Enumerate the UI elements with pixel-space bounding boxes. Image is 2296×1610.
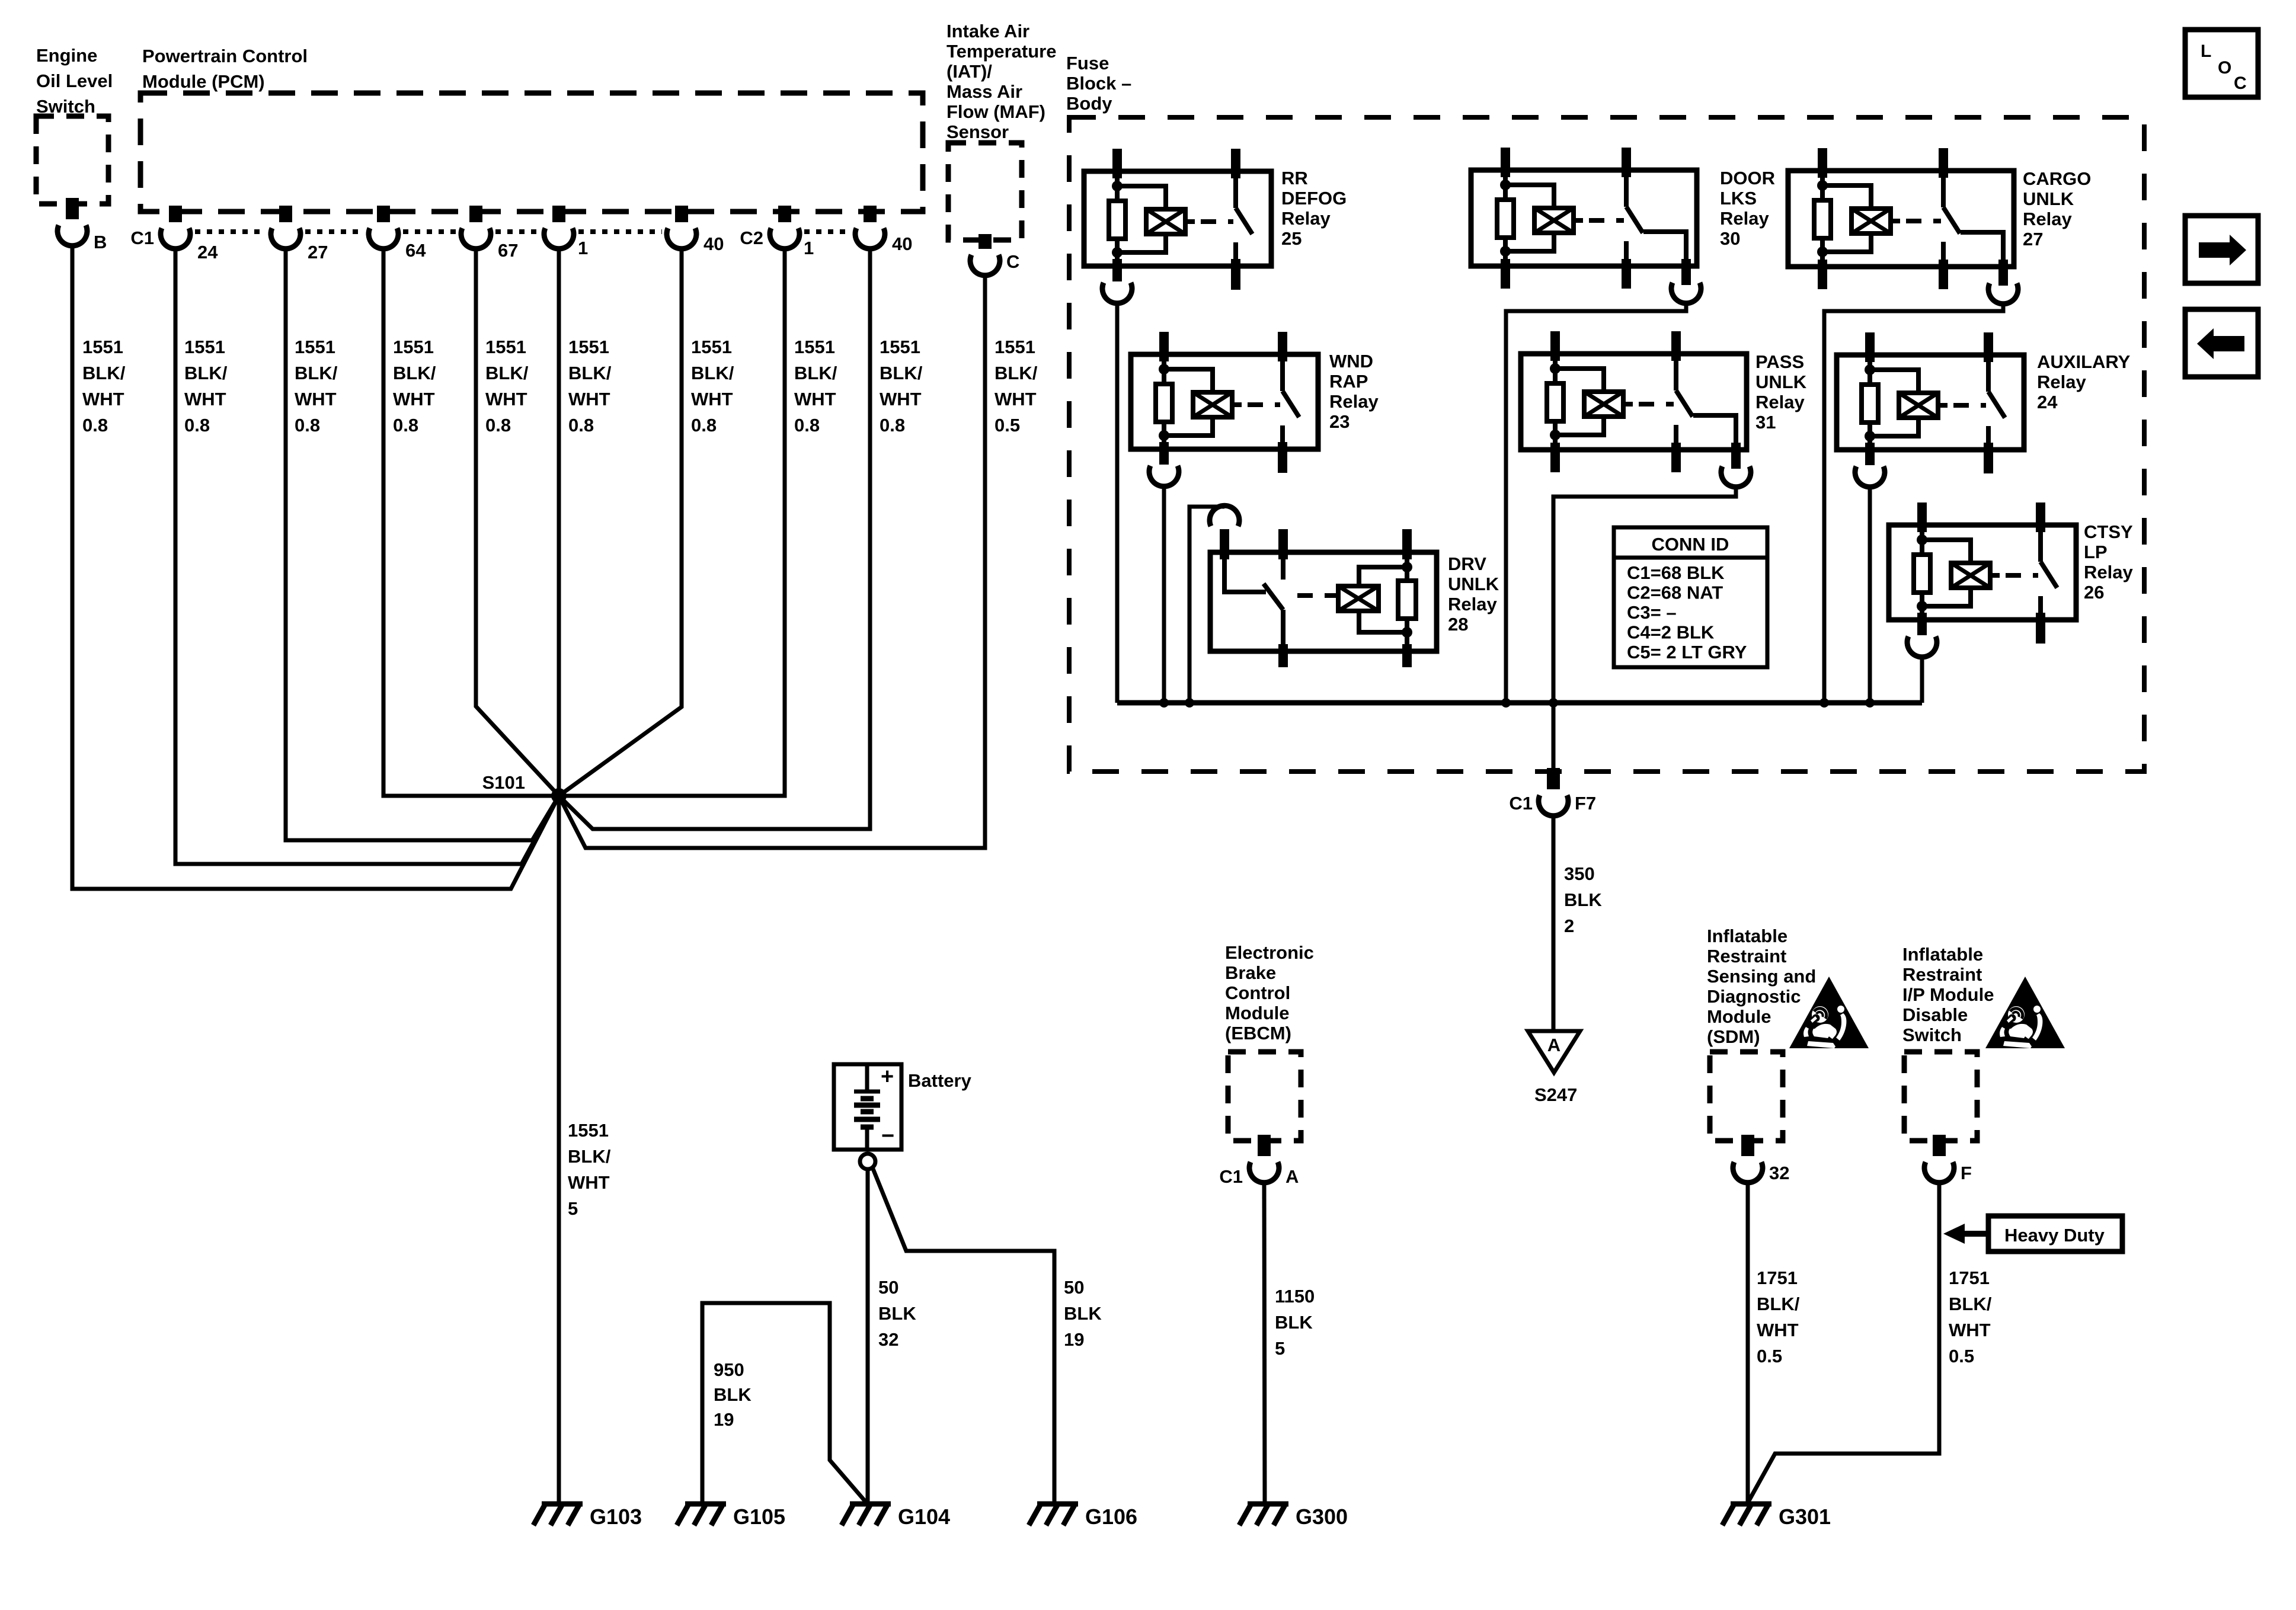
wire ground bus to DRV UNLK relay — [1189, 507, 1224, 703]
svg-text:Battery: Battery — [908, 1070, 972, 1091]
svg-text:BLK/: BLK/ — [568, 1146, 611, 1167]
svg-text:WHT: WHT — [568, 389, 610, 409]
wire 1551 BLK/WHT 0.8 (PCM C1-67 to S101) — [476, 249, 559, 796]
svg-text:Block –: Block – — [1066, 73, 1131, 94]
label Electronic Brake Control Module (EBCM) — [1225, 942, 1314, 1044]
svg-text:G106: G106 — [1085, 1505, 1137, 1529]
warning triangle (SDM airbag) — [1789, 977, 1869, 1048]
svg-text:BLK/: BLK/ — [691, 363, 734, 383]
relay RR DEFOG 25 — [1084, 149, 1271, 290]
wire label 1551 BLK/WHT 0.8 — [485, 337, 529, 436]
svg-text:Oil Level: Oil Level — [36, 71, 113, 91]
svg-text:0.8: 0.8 — [794, 415, 820, 436]
svg-text:C3= –: C3= – — [1627, 602, 1677, 623]
svg-text:LP: LP — [2084, 542, 2108, 562]
junction DOOR LKS — [1501, 698, 1511, 708]
battery — [834, 1064, 901, 1150]
svg-text:WHT: WHT — [485, 389, 527, 409]
svg-text:25: 25 — [1281, 228, 1302, 249]
svg-text:(IAT)/: (IAT)/ — [946, 61, 992, 82]
svg-text:WND: WND — [1329, 351, 1373, 372]
connector PCM pin 27 — [271, 206, 300, 249]
relay CARGO UNLK 27 label — [2023, 168, 2091, 249]
svg-text:0.8: 0.8 — [295, 415, 320, 436]
svg-text:1: 1 — [804, 238, 814, 258]
svg-text:24: 24 — [2037, 392, 2058, 412]
wire RR DEFOG relay to ground bus — [1115, 303, 1120, 703]
Heavy Duty callout box — [1988, 1216, 2122, 1251]
battery negative terminal — [860, 1154, 875, 1169]
svg-text:28: 28 — [1448, 614, 1468, 635]
svg-text:26: 26 — [2084, 582, 2104, 603]
svg-text:BLK/: BLK/ — [880, 363, 923, 383]
wire 50 BLK 19 (battery to G106) — [872, 1167, 1054, 1504]
svg-text:Inflatable: Inflatable — [1902, 944, 1983, 965]
wire 1551 BLK/WHT 5 (S101 to G103) — [557, 249, 561, 1504]
svg-text:40: 40 — [703, 233, 724, 254]
svg-text:Relay: Relay — [1329, 391, 1379, 412]
svg-text:0.8: 0.8 — [691, 415, 717, 436]
connector PCM pin 67 — [461, 206, 491, 249]
wire label 1551 BLK/WHT 0.5 — [994, 337, 1038, 436]
svg-text:Restraint: Restraint — [1707, 946, 1786, 966]
svg-text:RR: RR — [1281, 168, 1308, 188]
svg-text:S101: S101 — [482, 772, 525, 793]
svg-text:BLK/: BLK/ — [485, 363, 529, 383]
svg-text:C: C — [1006, 251, 1019, 272]
connector PCM pin 24 (C1) — [161, 206, 190, 249]
svg-text:BLK/: BLK/ — [794, 363, 837, 383]
wire 50 BLK 32 (battery to G104) — [866, 1169, 870, 1504]
svg-text:1551: 1551 — [295, 337, 335, 357]
svg-text:950: 950 — [714, 1359, 744, 1380]
connector PCM pin 40 — [667, 206, 696, 249]
svg-text:350: 350 — [1564, 863, 1595, 884]
svg-text:C1: C1 — [1509, 793, 1533, 814]
svg-text:G301: G301 — [1779, 1505, 1831, 1529]
relay PASS UNLK 31 label — [1755, 351, 1807, 433]
connector C1 F7 (fuse block) — [1539, 768, 1568, 816]
relay CTSY LP 26 — [1889, 502, 2076, 644]
svg-text:Module (PCM): Module (PCM) — [142, 71, 265, 92]
wire 1751 BLK/WHT 0.5 (SDM to G301) — [1746, 1183, 1750, 1504]
relay WND RAP 23 label — [1329, 351, 1379, 432]
wire label 950 BLK 19 — [714, 1359, 752, 1430]
svg-text:0.8: 0.8 — [184, 415, 210, 436]
svg-text:(SDM): (SDM) — [1707, 1026, 1760, 1047]
svg-text:G104: G104 — [898, 1505, 950, 1529]
svg-text:WHT: WHT — [994, 389, 1037, 409]
module EBCM (dashed box) — [1228, 1052, 1301, 1141]
svg-text:BLK/: BLK/ — [568, 363, 612, 383]
connector under WND RAP relay — [1149, 442, 1179, 486]
relay CARGO UNLK 27 — [1788, 148, 2014, 289]
warning triangle (disable switch airbag) — [1985, 977, 2065, 1048]
svg-text:BLK: BLK — [1064, 1303, 1102, 1324]
wire label 350 BLK 2 — [1564, 863, 1602, 936]
svg-text:50: 50 — [1064, 1277, 1084, 1298]
splice S101 — [551, 788, 567, 804]
svg-text:Relay: Relay — [2037, 372, 2086, 392]
svg-text:Sensor: Sensor — [946, 121, 1009, 142]
svg-text:1551: 1551 — [794, 337, 835, 357]
relay RR DEFOG 25 label — [1281, 168, 1347, 249]
wire label 1551 BLK/WHT 0.8 — [295, 337, 338, 436]
wire CTSY LP relay to ground bus — [1920, 657, 1924, 703]
svg-text:F7: F7 — [1575, 793, 1596, 814]
svg-text:Module: Module — [1225, 1003, 1290, 1023]
wire ground bus (fuse block) — [1117, 700, 1922, 706]
ground G300 — [1239, 1504, 1348, 1529]
wire label 1551 BLK/WHT 5 — [568, 1120, 611, 1219]
svg-text:O: O — [2218, 58, 2231, 78]
svg-text:C1: C1 — [130, 228, 154, 248]
svg-text:Brake: Brake — [1225, 962, 1276, 983]
svg-text:1551: 1551 — [82, 337, 123, 357]
svg-text:Relay: Relay — [2084, 562, 2133, 582]
svg-text:BLK/: BLK/ — [295, 363, 338, 383]
svg-text:BLK: BLK — [878, 1303, 916, 1324]
connector under CTSY LP relay — [1907, 613, 1937, 657]
svg-text:BLK/: BLK/ — [994, 363, 1038, 383]
wire label 1551 BLK/WHT 0.8 — [184, 337, 228, 436]
svg-text:BLK/: BLK/ — [82, 363, 126, 383]
svg-text:WHT: WHT — [184, 389, 226, 409]
svg-text:1551: 1551 — [880, 337, 920, 357]
connector pin B of Engine Oil Level Switch — [57, 198, 87, 246]
svg-text:19: 19 — [714, 1409, 734, 1430]
Heavy Duty arrow — [1943, 1224, 1988, 1244]
svg-text:B: B — [94, 232, 107, 252]
svg-text:Fuse: Fuse — [1066, 53, 1109, 73]
wire label 1751 BLK/WHT 0.5 (SDM) — [1757, 1267, 1800, 1366]
svg-text:0.5: 0.5 — [1757, 1346, 1782, 1366]
svg-text:1551: 1551 — [393, 337, 434, 357]
module Powertrain Control Module PCM (dashed box) — [140, 93, 923, 212]
svg-text:0.8: 0.8 — [568, 415, 594, 436]
svg-text:1551: 1551 — [994, 337, 1035, 357]
connector PCM pin 1 (C2) — [770, 206, 800, 249]
svg-text:UNLK: UNLK — [2023, 188, 2074, 209]
svg-text:Powertrain Control: Powertrain Control — [142, 46, 308, 66]
svg-text:BLK: BLK — [714, 1384, 752, 1405]
svg-text:Mass Air: Mass Air — [946, 81, 1022, 102]
svg-text:RAP: RAP — [1329, 371, 1368, 392]
arrow box (left) — [2185, 309, 2258, 377]
wire 1551 BLK/WHT 0.8 (B to S101) — [72, 246, 559, 889]
wire 350 BLK 2 (F7 to S247) — [1552, 816, 1556, 1031]
module Engine Oil Level Switch (dashed box) — [36, 116, 108, 204]
splice S247 triangle — [1528, 1031, 1580, 1073]
connector pin C of MAF sensor — [970, 234, 1000, 276]
junction AUXILARY — [1865, 698, 1875, 708]
wire label 1551 BLK/WHT 0.8 — [794, 337, 837, 436]
wire 1551 BLK/WHT 0.8 (PCM C2-40 to S101) — [559, 249, 870, 829]
svg-text:0.5: 0.5 — [1949, 1346, 1974, 1366]
connector under CARGO UNLK relay — [1988, 260, 2018, 304]
svg-text:G105: G105 — [733, 1505, 785, 1529]
svg-text:19: 19 — [1064, 1329, 1084, 1350]
svg-text:WHT: WHT — [393, 389, 435, 409]
svg-text:C: C — [2234, 73, 2247, 93]
junction WND RAP — [1159, 698, 1169, 708]
svg-text:WHT: WHT — [1757, 1320, 1799, 1340]
svg-text:50: 50 — [878, 1277, 898, 1298]
label Inflatable Restraint I/P Module Disable Switch — [1902, 944, 1994, 1045]
connector PCM pin 64 — [369, 206, 398, 249]
connector under AUXILARY relay — [1855, 443, 1885, 487]
ground G105 — [677, 1504, 785, 1529]
svg-text:Relay: Relay — [1755, 392, 1805, 412]
label Powertrain Control Module (PCM) — [142, 46, 308, 92]
svg-text:Electronic: Electronic — [1225, 942, 1314, 963]
svg-text:−: − — [881, 1124, 894, 1148]
module Disable Switch (dashed box) — [1904, 1052, 1977, 1141]
svg-text:L: L — [2201, 41, 2211, 61]
wire label 1551 BLK/WHT 0.8 — [568, 337, 612, 436]
svg-text:27: 27 — [308, 242, 328, 263]
svg-text:WHT: WHT — [295, 389, 337, 409]
svg-text:32: 32 — [1769, 1163, 1789, 1183]
svg-text:1551: 1551 — [485, 337, 526, 357]
wire DOOR LKS relay to ground bus — [1506, 303, 1686, 703]
svg-text:27: 27 — [2023, 229, 2043, 249]
junction C1 F7 tap — [1549, 698, 1558, 708]
arrow box (right) — [2185, 216, 2258, 283]
label Fuse Block - Body — [1066, 53, 1131, 114]
ground G104 — [842, 1504, 950, 1529]
label Intake Air Temperature (IAT)/Mass Air Flow (MAF) Sensor — [946, 21, 1057, 142]
wire label 1551 BLK/WHT 0.8 — [691, 337, 734, 436]
svg-text:5: 5 — [568, 1198, 578, 1219]
svg-text:C2: C2 — [740, 228, 763, 248]
svg-text:Restraint: Restraint — [1902, 964, 1982, 985]
wire 1551 BLK/WHT 0.8 (PCM C1-64 to S101) — [383, 249, 559, 796]
svg-text:0.8: 0.8 — [393, 415, 418, 436]
svg-text:CARGO: CARGO — [2023, 168, 2091, 189]
svg-text:S247: S247 — [1534, 1084, 1577, 1105]
connector under PASS UNLK relay — [1721, 443, 1751, 487]
module SDM (dashed box) — [1710, 1052, 1783, 1141]
svg-text:I/P Module: I/P Module — [1902, 984, 1994, 1005]
svg-text:DOOR: DOOR — [1720, 168, 1775, 188]
svg-text:WHT: WHT — [568, 1172, 610, 1193]
svg-text:1751: 1751 — [1757, 1267, 1798, 1288]
wire label 1551 BLK/WHT 0.8 — [82, 337, 126, 436]
svg-text:1551: 1551 — [568, 1120, 609, 1141]
connector disable switch pin F — [1924, 1135, 1954, 1183]
svg-text:0.8: 0.8 — [485, 415, 511, 436]
svg-text:5: 5 — [1275, 1338, 1285, 1359]
svg-text:2: 2 — [1564, 916, 1574, 936]
LOC reference box — [2185, 30, 2258, 97]
svg-text:PASS: PASS — [1755, 351, 1804, 372]
svg-text:(EBCM): (EBCM) — [1225, 1023, 1291, 1044]
wire 950 BLK 19 (G105 to G104) — [702, 1303, 866, 1504]
svg-text:BLK/: BLK/ — [184, 363, 228, 383]
relay PASS UNLK 31 — [1521, 331, 1747, 472]
svg-text:WHT: WHT — [880, 389, 922, 409]
ground G103 — [533, 1504, 642, 1529]
svg-text:Relay: Relay — [1281, 208, 1331, 229]
label Inflatable Restraint Sensing and Diagnostic Module (SDM) — [1707, 926, 1816, 1047]
connector under DOOR LKS relay — [1671, 259, 1701, 303]
connector PCM pin 1 — [544, 206, 574, 249]
svg-text:Control: Control — [1225, 982, 1290, 1003]
svg-text:DEFOG: DEFOG — [1281, 188, 1347, 209]
svg-text:WHT: WHT — [794, 389, 836, 409]
relay DRV UNLK 28 label — [1448, 553, 1499, 635]
svg-text:C5= 2 LT GRY: C5= 2 LT GRY — [1627, 642, 1747, 662]
svg-text:UNLK: UNLK — [1448, 574, 1499, 594]
connector SDM pin 32 — [1733, 1135, 1763, 1183]
connector above DRV UNLK relay — [1210, 505, 1239, 559]
svg-text:Body: Body — [1066, 93, 1112, 114]
svg-text:1150: 1150 — [1275, 1286, 1315, 1307]
svg-text:G300: G300 — [1296, 1505, 1348, 1529]
dotted connector line C2 group — [804, 229, 850, 234]
relay DRV UNLK 28 — [1210, 529, 1437, 667]
svg-text:AUXILARY: AUXILARY — [2037, 351, 2131, 372]
svg-text:+: + — [881, 1064, 894, 1089]
svg-text:Inflatable: Inflatable — [1707, 926, 1787, 946]
svg-text:Intake Air: Intake Air — [946, 21, 1029, 41]
svg-text:DRV: DRV — [1448, 553, 1486, 574]
svg-text:1: 1 — [578, 238, 588, 258]
wire CARGO UNLK relay to ground bus — [1824, 304, 2003, 703]
svg-text:BLK: BLK — [1275, 1312, 1313, 1333]
svg-text:Relay: Relay — [1448, 594, 1497, 614]
svg-text:A: A — [1547, 1035, 1560, 1055]
relay AUXILARY 24 label — [2037, 351, 2131, 412]
svg-text:0.8: 0.8 — [82, 415, 108, 436]
wire 1551 BLK/WHT 0.8 (PCM C2-1 to S101) — [559, 249, 785, 796]
relay AUXILARY 24 — [1837, 332, 2024, 473]
wire label 50 BLK 32 — [878, 1277, 916, 1350]
svg-text:30: 30 — [1720, 228, 1740, 249]
wire 1551 BLK/WHT 0.8 (PCM C1-24 to S101) — [175, 249, 559, 864]
wire label 1150 BLK 5 — [1275, 1286, 1315, 1359]
svg-text:WHT: WHT — [1949, 1320, 1991, 1340]
ground G106 — [1029, 1504, 1137, 1529]
svg-text:CTSY: CTSY — [2084, 521, 2133, 542]
wire label 1751 BLK/WHT 0.5 (switch) — [1949, 1267, 1992, 1366]
svg-text:Flow (MAF): Flow (MAF) — [946, 101, 1045, 122]
wire label 1551 BLK/WHT 0.8 — [393, 337, 436, 436]
wire 1150 BLK 5 (EBCM to G300) — [1264, 1183, 1265, 1504]
wire ground bus to fuse block C1 F7 — [1552, 703, 1556, 769]
svg-text:LKS: LKS — [1720, 188, 1757, 209]
svg-text:C2=68 NAT: C2=68 NAT — [1627, 582, 1723, 603]
svg-text:Switch: Switch — [1902, 1025, 1962, 1045]
svg-text:WHT: WHT — [691, 389, 733, 409]
svg-text:67: 67 — [498, 240, 518, 261]
svg-text:1551: 1551 — [184, 337, 225, 357]
svg-text:Engine: Engine — [36, 45, 97, 66]
wire label 50 BLK 19 — [1064, 1277, 1102, 1350]
svg-text:Disable: Disable — [1902, 1004, 1968, 1025]
svg-text:Relay: Relay — [1720, 208, 1769, 229]
connector EBCM C1 pin A — [1249, 1135, 1279, 1183]
svg-text:A: A — [1285, 1166, 1299, 1187]
svg-text:C1=68 BLK: C1=68 BLK — [1627, 562, 1725, 583]
junction DRV UNLK — [1185, 698, 1194, 708]
wire 1551 BLK/WHT 0.5 (MAF C to S101) — [559, 276, 985, 848]
svg-text:WHT: WHT — [82, 389, 124, 409]
svg-text:23: 23 — [1329, 411, 1350, 432]
svg-text:0.8: 0.8 — [880, 415, 905, 436]
svg-text:40: 40 — [892, 233, 912, 254]
wire 1551 BLK/WHT 0.8 (PCM C1-40 to S101) — [559, 249, 682, 796]
svg-text:Heavy Duty: Heavy Duty — [2004, 1225, 2105, 1246]
svg-text:Module: Module — [1707, 1006, 1771, 1027]
relay DOOR LKS 30 label — [1720, 168, 1775, 249]
svg-text:G103: G103 — [590, 1505, 642, 1529]
svg-text:32: 32 — [878, 1329, 898, 1350]
svg-text:1751: 1751 — [1949, 1267, 1990, 1288]
ground G301 — [1722, 1504, 1831, 1529]
svg-text:31: 31 — [1755, 412, 1776, 433]
wire WND RAP relay to ground bus — [1162, 486, 1166, 703]
junction CARGO UNLK — [1819, 698, 1829, 708]
wire 1551 BLK/WHT 0.8 (PCM C1-27 to S101) — [286, 249, 559, 840]
wire AUXILARY relay to ground bus — [1868, 487, 1872, 703]
svg-text:Diagnostic: Diagnostic — [1707, 986, 1801, 1007]
CONN ID table — [1614, 527, 1767, 667]
svg-text:BLK: BLK — [1564, 889, 1602, 910]
wire label 1551 BLK/WHT 0.8 — [880, 337, 923, 436]
relay WND RAP 23 — [1131, 332, 1318, 473]
svg-text:0.5: 0.5 — [994, 415, 1020, 436]
svg-text:UNLK: UNLK — [1755, 372, 1807, 392]
wire PASS UNLK relay to ground bus — [1553, 487, 1736, 703]
svg-text:Relay: Relay — [2023, 209, 2072, 229]
svg-text:F: F — [1961, 1163, 1972, 1183]
svg-text:64: 64 — [405, 240, 426, 261]
svg-text:BLK/: BLK/ — [1949, 1294, 1992, 1314]
relay DOOR LKS 30 — [1471, 148, 1697, 289]
connector under RR DEFOG relay — [1102, 259, 1132, 303]
svg-text:BLK/: BLK/ — [1757, 1294, 1800, 1314]
svg-text:1551: 1551 — [568, 337, 609, 357]
svg-text:Sensing and: Sensing and — [1707, 966, 1816, 987]
module IAT/MAF Sensor (dashed box) — [948, 143, 1022, 240]
svg-text:Temperature: Temperature — [946, 41, 1057, 62]
module Fuse Block - Body (dashed box) — [1069, 117, 2144, 772]
svg-text:C4=2 BLK: C4=2 BLK — [1627, 622, 1715, 643]
svg-text:BLK/: BLK/ — [393, 363, 436, 383]
svg-text:24: 24 — [197, 242, 218, 263]
wire 1751 BLK/WHT 0.5 (disable switch to G301) — [1748, 1183, 1939, 1503]
dotted connector line C1 group — [195, 229, 266, 234]
svg-text:CONN ID: CONN ID — [1652, 534, 1729, 555]
relay CTSY LP 26 label — [2084, 521, 2133, 603]
label Engine Oil Level Switch — [36, 45, 113, 117]
connector PCM pin 40 — [855, 206, 885, 249]
svg-text:C1: C1 — [1219, 1166, 1243, 1187]
svg-text:1551: 1551 — [691, 337, 732, 357]
